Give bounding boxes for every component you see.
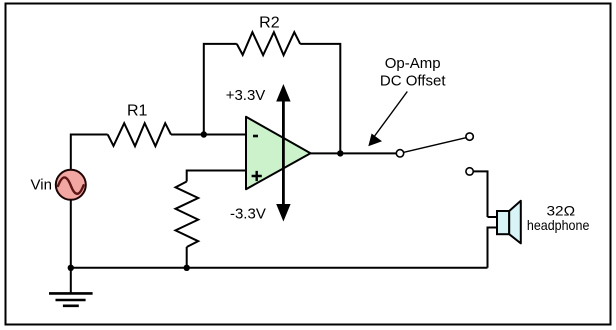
svg-text:32Ω: 32Ω xyxy=(547,203,576,219)
speaker LS1 (32 ohm headphone) xyxy=(497,201,521,244)
label +3.3V xyxy=(226,87,266,104)
svg-text:+3.3V: +3.3V xyxy=(226,87,266,104)
node ground junction xyxy=(68,265,74,271)
wire xyxy=(171,134,246,136)
svg-text:DC Offset: DC Offset xyxy=(380,73,446,90)
power arrow +3.3V xyxy=(276,84,290,153)
wire xyxy=(488,228,498,268)
resistor R1 xyxy=(108,123,171,146)
label 32ohm headphone xyxy=(527,203,590,234)
source Vin xyxy=(56,170,86,200)
wire xyxy=(71,267,488,269)
resistor R2 xyxy=(237,32,300,55)
label Op-Amp DC Offset xyxy=(380,55,446,90)
wire xyxy=(187,171,246,182)
wire xyxy=(488,216,498,218)
node inverting input junction xyxy=(201,131,207,137)
node resistor-bottom junction xyxy=(184,265,190,271)
op-amp U1 xyxy=(246,117,311,189)
wire xyxy=(71,135,108,170)
label Vin xyxy=(31,177,52,194)
label R1 xyxy=(127,103,148,120)
switch SW1 xyxy=(396,133,473,175)
node output junction xyxy=(337,150,343,156)
annotation arrow to output node xyxy=(368,92,407,147)
label -3.3V xyxy=(230,205,266,222)
svg-text:headphone: headphone xyxy=(527,217,590,233)
wire xyxy=(300,44,340,153)
label R2 xyxy=(259,14,280,31)
ground xyxy=(49,268,93,306)
svg-text:R2: R2 xyxy=(259,14,280,31)
svg-text:Vin: Vin xyxy=(31,177,52,194)
svg-text:Op-Amp: Op-Amp xyxy=(385,55,441,72)
wire xyxy=(473,171,487,217)
resistor R3 (unlabeled, non-inverting input to ground) xyxy=(176,182,199,248)
wire xyxy=(70,200,72,268)
wire xyxy=(204,44,237,135)
svg-text:-3.3V: -3.3V xyxy=(230,205,266,222)
wire xyxy=(311,152,397,154)
wire xyxy=(186,247,188,268)
power arrow -3.3V xyxy=(276,153,290,222)
svg-text:R1: R1 xyxy=(127,103,148,120)
